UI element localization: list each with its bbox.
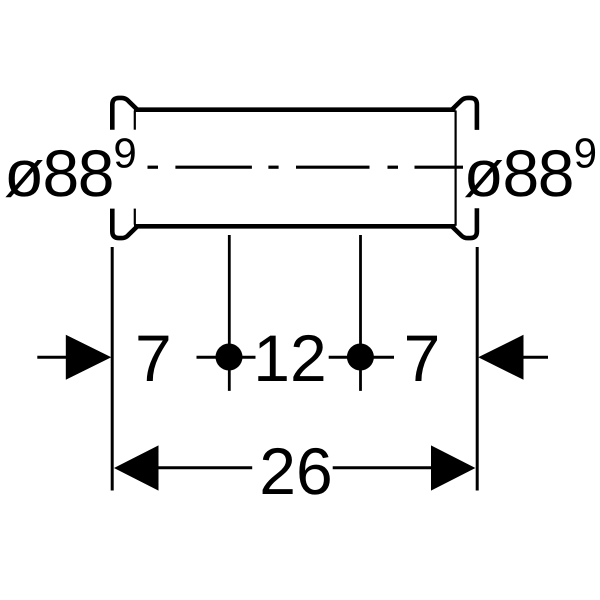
bottom-right bead hook — [452, 208, 477, 238]
press indent marker line right — [359, 235, 362, 391]
sleeve top outline with end beads — [112, 98, 477, 238]
press indent dot left — [216, 344, 243, 371]
svg-text:ø: ø — [4, 136, 44, 210]
top-right bead hook — [452, 98, 477, 130]
svg-text:ø: ø — [464, 136, 504, 210]
label tolerance superscript right — [576, 138, 595, 168]
arrow 26 right pointing right — [431, 445, 475, 490]
left end face line (broken) — [134, 111, 136, 225]
top body line — [134, 107, 456, 112]
dimension row 7/12/7 lines — [37, 356, 548, 359]
bottom body line — [134, 224, 456, 229]
label tolerance superscript left — [115, 138, 134, 168]
right end face line — [455, 111, 457, 226]
arrow right pointing left (7 row) — [478, 335, 523, 380]
svg-text:88: 88 — [43, 136, 113, 210]
press indent marker line left — [228, 235, 231, 391]
extension line right — [476, 247, 479, 491]
arrow 26 left pointing left — [114, 445, 159, 490]
svg-text:7: 7 — [404, 321, 441, 395]
svg-text:12: 12 — [253, 321, 326, 395]
bottom-left bead hook — [112, 209, 137, 239]
press indent dot right — [347, 344, 374, 371]
svg-text:7: 7 — [135, 321, 172, 395]
dimension 26 line — [158, 466, 432, 469]
svg-text:88: 88 — [503, 136, 573, 210]
top-left bead hook — [112, 98, 137, 130]
extension line left — [111, 247, 114, 491]
svg-text:26: 26 — [259, 434, 332, 508]
arrow left pointing right (7 row) — [66, 335, 112, 380]
centre axis dash-dot line — [148, 166, 464, 169]
